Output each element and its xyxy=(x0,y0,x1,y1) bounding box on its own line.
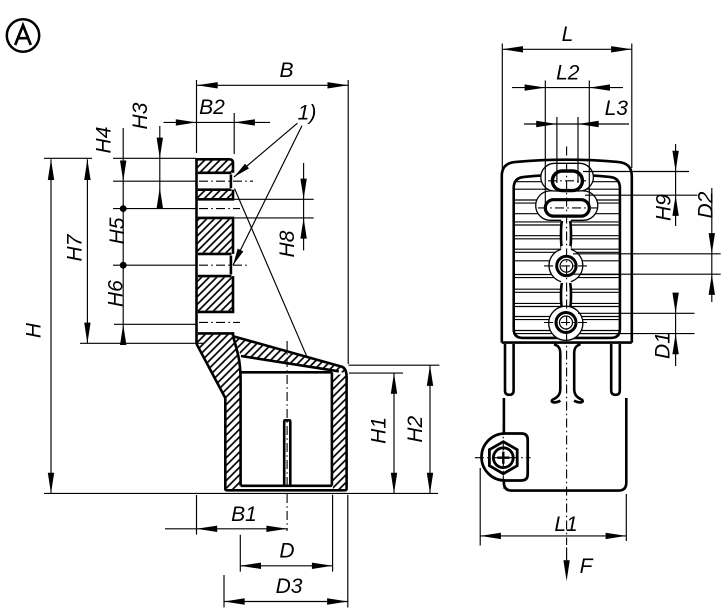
svg-text:H: H xyxy=(22,322,45,338)
baseline xyxy=(44,492,438,494)
top reference line xyxy=(44,157,196,159)
panel outline xyxy=(514,175,620,338)
threaded hole 1 xyxy=(198,173,232,190)
svg-text:H4: H4 xyxy=(93,127,116,154)
hole boss D2 xyxy=(549,249,583,283)
svg-text:L: L xyxy=(562,23,574,46)
svg-text:H7: H7 xyxy=(63,233,86,261)
through slot 2 xyxy=(198,312,235,334)
svg-text:H1: H1 xyxy=(368,417,391,444)
dimension L2 xyxy=(512,62,623,208)
slot L3 centerline xyxy=(548,180,586,182)
socket axis centerline xyxy=(286,341,288,531)
dimension H2 xyxy=(349,365,440,493)
hole D2 xyxy=(557,256,576,275)
hole 2 centerline xyxy=(199,264,250,266)
clamp screw outer circle xyxy=(490,445,516,471)
clamp hex nut xyxy=(489,442,517,474)
dimension H7 xyxy=(63,159,90,343)
hole D1 centerline xyxy=(544,322,589,324)
left leg xyxy=(505,344,514,395)
plate outline xyxy=(197,159,234,343)
slot boss 2 (L2) xyxy=(536,191,598,220)
part vertical centerline xyxy=(566,147,568,546)
dimension D1 xyxy=(578,293,695,366)
svg-text:H5: H5 xyxy=(106,217,129,244)
dimension H1 xyxy=(349,373,403,493)
svg-text:B: B xyxy=(279,59,293,82)
dimension L3 xyxy=(524,97,629,183)
dimension B xyxy=(197,59,349,364)
lower body xyxy=(504,398,626,491)
view label A circle xyxy=(7,19,39,51)
upper shell outline xyxy=(502,160,632,343)
hole D1 xyxy=(556,313,576,333)
upper shell bottom edge xyxy=(502,341,632,344)
threaded hole 2 xyxy=(198,254,232,276)
hole boss D1 xyxy=(549,306,583,340)
svg-text:1): 1) xyxy=(298,102,317,125)
dimension D3 xyxy=(224,495,348,608)
hole 1 centerline xyxy=(199,180,253,182)
dimension H4 / H5 / H6 shared line xyxy=(93,127,129,345)
dimension L1 xyxy=(480,468,626,546)
socket right wall hatch xyxy=(333,375,346,490)
channel between L2 boss and D2 boss xyxy=(561,220,571,251)
hole1 center reference xyxy=(113,180,196,182)
svg-text:H9: H9 xyxy=(653,194,676,221)
dimension D2 xyxy=(573,188,721,302)
slot 1 centerline xyxy=(199,208,240,210)
svg-text:D: D xyxy=(279,540,294,563)
right leg xyxy=(611,344,620,395)
svg-text:B2: B2 xyxy=(199,96,225,119)
clamp lobe xyxy=(482,434,528,481)
svg-text:F: F xyxy=(580,555,594,578)
slot2 center reference xyxy=(114,323,196,325)
svg-text:H2: H2 xyxy=(404,415,427,442)
svg-text:B1: B1 xyxy=(231,503,257,526)
socket outline xyxy=(197,336,347,490)
clamp screw xyxy=(493,448,513,468)
svg-text:L1: L1 xyxy=(554,513,577,536)
dimension B2 xyxy=(164,96,271,154)
slot boss 1 (L3) xyxy=(541,163,594,191)
dimension H xyxy=(22,159,54,493)
hole D2 centerline xyxy=(544,265,589,267)
svg-text:H3: H3 xyxy=(129,102,152,129)
svg-text:H8: H8 xyxy=(276,230,299,257)
dimension D xyxy=(240,495,332,572)
through slot 1 xyxy=(198,199,235,218)
slot1 center reference (H5 dot) xyxy=(113,208,196,210)
svg-text:D2: D2 xyxy=(694,191,717,218)
dimension B1 xyxy=(165,495,287,535)
svg-text:H6: H6 xyxy=(104,280,127,307)
svg-text:L3: L3 xyxy=(605,97,629,120)
slot L2 centerline xyxy=(538,207,597,209)
slot 2 centerline xyxy=(199,321,240,323)
socket top slope hatch xyxy=(233,336,348,374)
svg-text:D3: D3 xyxy=(276,575,303,598)
channel between D2 boss and D1 boss xyxy=(561,282,571,309)
dimension H3 xyxy=(129,102,163,208)
svg-text:D1: D1 xyxy=(651,332,674,359)
panel ribs xyxy=(515,182,619,334)
center slit xyxy=(284,420,290,486)
slot L3 (obround) xyxy=(552,171,582,191)
force arrow F xyxy=(563,548,593,582)
screw centerlines xyxy=(475,425,531,489)
bend reference line xyxy=(80,342,203,344)
center tongue xyxy=(552,344,583,402)
dimension H8 xyxy=(234,163,313,257)
plate section hatch xyxy=(197,160,241,490)
slot L2 (obround) xyxy=(545,200,589,216)
dimension L xyxy=(502,23,632,174)
hole2 center reference (H5 dot) xyxy=(113,264,196,266)
callout 1) leaders xyxy=(233,102,316,357)
svg-text:L2: L2 xyxy=(556,62,580,85)
dimension H9 xyxy=(583,144,698,226)
